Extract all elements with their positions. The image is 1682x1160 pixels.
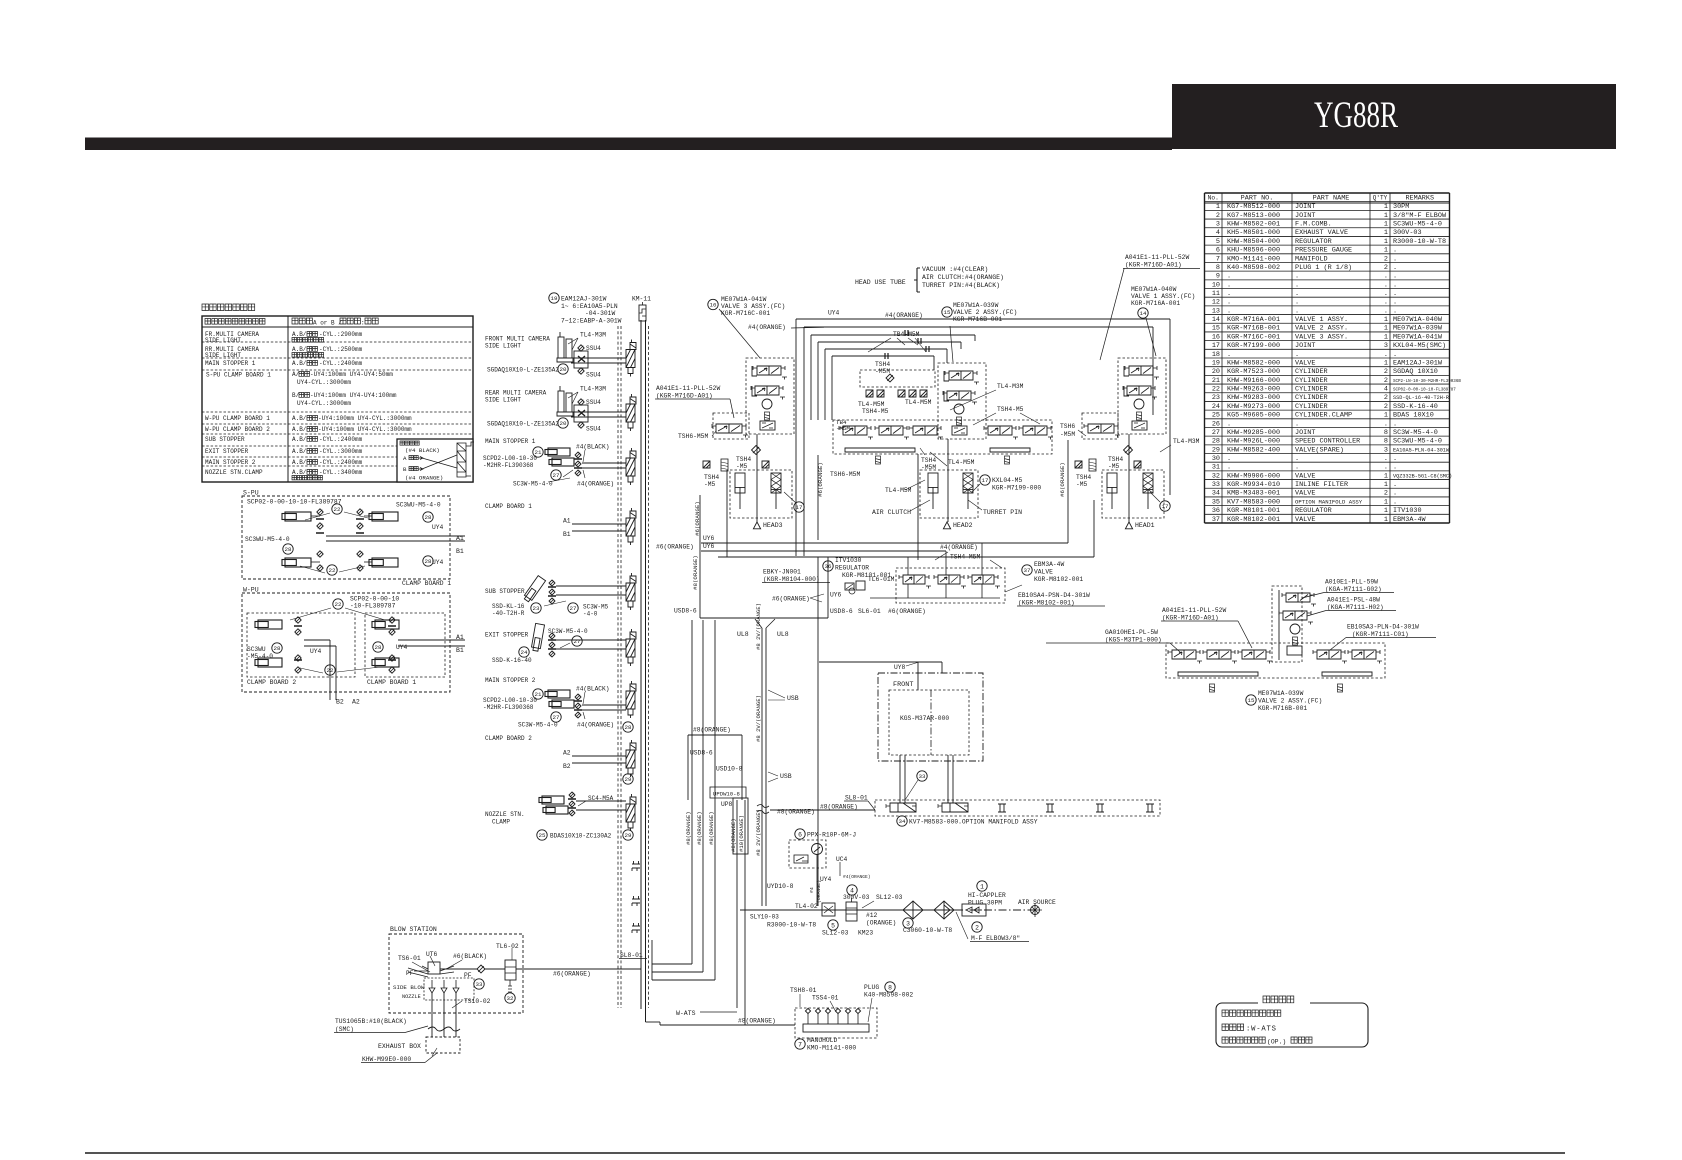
svg-text:A1: A1 — [456, 535, 464, 542]
svg-text:KV7-M8583-000: KV7-M8583-000 — [1227, 498, 1280, 506]
svg-text:27: 27 — [553, 472, 560, 479]
svg-text:3: 3 — [1384, 342, 1388, 350]
W-PU clamp board 1 inner box — [365, 613, 445, 677]
svg-text:16: 16 — [1212, 333, 1220, 341]
hose table port note box — [397, 439, 473, 482]
svg-text:OPTION MANIFOLD ASSY: OPTION MANIFOLD ASSY — [1295, 498, 1363, 505]
svg-text:7: 7 — [1216, 255, 1220, 263]
svg-text:A041E1-11-PLL-52W: A041E1-11-PLL-52W — [1125, 254, 1189, 261]
svg-text:HEAD1: HEAD1 — [1135, 522, 1155, 529]
svg-text:-CYL.:3000mm: -CYL.:3000mm — [319, 448, 363, 455]
svg-text:B/: B/ — [292, 392, 300, 399]
svg-text:VALVE 2 ASSY.(FC): VALVE 2 ASSY.(FC) — [1258, 698, 1322, 705]
svg-text:AIR CLUTCH: AIR CLUTCH — [872, 509, 911, 516]
svg-text:.: . — [1227, 351, 1231, 359]
squiggle tus — [428, 1027, 460, 1031]
bus valve 4 — [630, 508, 636, 518]
wires sub stopper — [556, 585, 626, 587]
svg-text:29: 29 — [625, 832, 632, 839]
svg-text:TSH6-M5M: TSH6-M5M — [678, 433, 708, 440]
joints main stopper 1 — [575, 452, 581, 458]
svg-text:ME07W1A-039W: ME07W1A-039W — [1258, 690, 1304, 697]
cylinders W-PU CB1 — [375, 620, 399, 629]
svg-text:CLAMP BOARD 1: CLAMP BOARD 1 — [485, 503, 532, 510]
svg-text:CLAMP: CLAMP — [492, 819, 510, 826]
svg-text:UY6: UY6 — [830, 592, 842, 599]
wire head3 riser — [756, 434, 758, 522]
W-PU wires — [304, 639, 330, 641]
svg-text:R3000-10-W-T8: R3000-10-W-T8 — [767, 922, 816, 929]
svg-text:TL6-02: TL6-02 — [496, 943, 519, 950]
valve box EBM3A — [896, 568, 1005, 603]
svg-text:6: 6 — [798, 831, 802, 838]
svg-text:KV7-M8583-000.OPTION MANIFOLD: KV7-M8583-000.OPTION MANIFOLD ASSY — [909, 819, 1038, 826]
svg-text:UPDW10-8: UPDW10-8 — [713, 791, 740, 798]
svg-text:.: . — [1227, 420, 1231, 428]
svg-text:A041E1-11-PLL-52W: A041E1-11-PLL-52W — [656, 385, 720, 392]
svg-text:HEAD USE TUBE: HEAD USE TUBE — [855, 279, 906, 286]
svg-text:#8(ORANGE): #8(ORANGE) — [692, 555, 699, 590]
valve assy stack HEAD3 — [746, 358, 794, 434]
label 15 valve2 bottom — [1246, 695, 1256, 705]
svg-text:#12: #12 — [866, 912, 878, 919]
svg-text:(ORANGE): (ORANGE) — [816, 880, 822, 903]
joints W-PU CB2 — [295, 617, 301, 623]
blow main line — [440, 968, 477, 970]
svg-text:.: . — [1393, 464, 1397, 472]
W-PU clamp board 2 inner box — [247, 613, 355, 677]
svg-text:#6(ORANGE): #6(ORANGE) — [656, 544, 694, 551]
svg-text:22: 22 — [329, 567, 336, 574]
svg-text:TL4-M5M: TL4-M5M — [905, 399, 932, 406]
svg-text:1: 1 — [1384, 472, 1388, 480]
svg-text:SSU4: SSU4 — [586, 426, 601, 433]
svg-text:1: 1 — [1384, 498, 1388, 506]
svg-text:ITV1030: ITV1030 — [835, 557, 862, 564]
blow check diamond — [477, 965, 485, 973]
hi-cappler — [962, 904, 986, 916]
svg-text:UY8: UY8 — [894, 664, 906, 671]
exhaust head2 — [943, 522, 950, 529]
svg-text:EBM3A-4W: EBM3A-4W — [1034, 561, 1064, 568]
svg-text:UY4-CYL.:3000mm: UY4-CYL.:3000mm — [297, 400, 351, 407]
wire nest 3 — [811, 334, 975, 336]
svg-text::: : — [361, 320, 365, 327]
svg-text:KGR-M716C-001: KGR-M716C-001 — [1227, 333, 1280, 341]
svg-text:33: 33 — [919, 773, 926, 780]
svg-text:NOZZLE: NOZZLE — [402, 994, 421, 1000]
TL4-M5M squares row — [866, 390, 873, 397]
svg-text:(ORANGE): (ORANGE) — [866, 920, 896, 927]
svg-text:.: . — [1295, 351, 1299, 359]
svg-text:SCP2-LN-10-30-M2HR-FL39036B: SCP2-LN-10-30-M2HR-FL39036B — [1393, 380, 1461, 384]
svg-text:#4(ORANGE): #4(ORANGE) — [940, 544, 978, 551]
svg-text:16: 16 — [710, 302, 717, 309]
svg-text:KHW-M8504-000: KHW-M8504-000 — [1227, 238, 1280, 246]
svg-text:11: 11 — [1212, 290, 1220, 298]
svg-text:8: 8 — [1384, 429, 1388, 437]
joints W-PU CB1 — [389, 617, 395, 623]
label 16 valve3 assy — [708, 299, 718, 309]
cylinder head1 clutch — [1143, 473, 1153, 493]
svg-text:PLUG: PLUG — [864, 984, 879, 991]
svg-text:-M5M: -M5M — [1060, 431, 1075, 438]
svg-text:CLAMP BOARD 1: CLAMP BOARD 1 — [367, 679, 416, 686]
svg-text:SC3WU-M5-4-0: SC3WU-M5-4-0 — [1393, 221, 1442, 229]
svg-text:.: . — [1295, 290, 1299, 298]
svg-text:USB: USB — [787, 695, 799, 702]
label 6 PPX — [795, 829, 805, 839]
svg-text:UY4-CYL.:3000mm: UY4-CYL.:3000mm — [297, 379, 351, 386]
svg-text:30: 30 — [1212, 455, 1220, 463]
svg-text:TSH4: TSH4 — [1108, 456, 1123, 463]
svg-text:(KGR-M716D-A01): (KGR-M716D-A01) — [1125, 262, 1182, 269]
svg-text:#6(ORANGE): #6(ORANGE) — [772, 596, 810, 603]
svg-text:TL6-01M: TL6-01M — [868, 576, 895, 583]
svg-text:SC3W-M5-4-0: SC3W-M5-4-0 — [513, 481, 553, 488]
cylinder head1 vacuum — [1107, 473, 1117, 493]
valve TSH6-M5M head1 — [1082, 413, 1118, 439]
svg-text:.: . — [1393, 420, 1397, 428]
right assy valve row box — [1166, 643, 1385, 678]
svg-text:19: 19 — [551, 295, 558, 302]
svg-text:CYLINDER: CYLINDER — [1295, 377, 1328, 385]
svg-text:#4(ORANGE): #4(ORANGE) — [748, 324, 786, 331]
svg-text:TSH4-M5: TSH4-M5 — [997, 406, 1024, 413]
S-PU wires — [311, 515, 320, 517]
wire nest 2 — [804, 326, 1153, 328]
svg-text:A.B/: A.B/ — [292, 426, 307, 433]
hose table header — [205, 319, 265, 325]
svg-text:23: 23 — [533, 605, 540, 612]
bus spare station 2 — [632, 896, 640, 906]
svg-text:(#4 BLACK): (#4 BLACK) — [405, 447, 440, 454]
label 22 circled lower — [327, 565, 337, 575]
svg-text:UY6: UY6 — [703, 535, 715, 542]
svg-text:-M2HR-FL390368: -M2HR-FL390368 — [483, 704, 534, 711]
svg-text:A: A — [403, 455, 407, 462]
svg-text:TSS4-01: TSS4-01 — [812, 995, 839, 1002]
cylinder main stopper 1 — [548, 448, 570, 456]
blow exhaust drops — [431, 993, 433, 1037]
svg-text:28: 28 — [375, 644, 382, 651]
svg-text:A.B/: A.B/ — [292, 360, 307, 367]
svg-text:14: 14 — [1140, 310, 1147, 317]
svg-text:#6(ORANGE): #6(ORANGE) — [1059, 462, 1066, 497]
svg-text:KM23: KM23 — [858, 930, 873, 937]
svg-text:EXIT STOPPER: EXIT STOPPER — [485, 632, 529, 639]
svg-text:REGULATOR: REGULATOR — [1295, 238, 1332, 246]
svg-text:KGR-M7199-000: KGR-M7199-000 — [992, 485, 1041, 492]
svg-text:A2: A2 — [352, 699, 360, 706]
cylinder head2 turret pin — [963, 473, 973, 493]
svg-text:CLAMP BOARD 2: CLAMP BOARD 2 — [247, 679, 296, 686]
svg-text:17: 17 — [1212, 342, 1220, 350]
parts table — [1205, 192, 1450, 194]
hose spec table — [202, 316, 473, 482]
valve row manifold bars — [845, 448, 1030, 452]
bottom rule — [85, 1152, 1565, 1154]
svg-text:SCPD2-L00-10-30: SCPD2-L00-10-30 — [483, 455, 537, 462]
TSH4-M5M filter box — [860, 370, 935, 387]
svg-text:12: 12 — [1212, 299, 1220, 307]
svg-text:KXL04-M5(SMC): KXL04-M5(SMC) — [1393, 342, 1446, 350]
svg-text:36: 36 — [825, 563, 832, 570]
svg-text:MANUHOLD: MANUHOLD — [807, 1037, 837, 1044]
svg-text:ME07W1A-041W: ME07W1A-041W — [721, 296, 767, 303]
svg-text:1~ 6:EA10A5-PLN: 1~ 6:EA10A5-PLN — [561, 303, 618, 310]
cylinder head3 vacuum — [735, 473, 745, 493]
svg-text:-CYL.:3400mm: -CYL.:3400mm — [319, 469, 363, 476]
svg-text:UC4: UC4 — [836, 856, 848, 863]
svg-text:A or B /: A or B / — [313, 320, 342, 327]
svg-text:EB10SA4-PSN-D4-301W: EB10SA4-PSN-D4-301W — [1018, 592, 1090, 599]
svg-text:KGR-M8102-001: KGR-M8102-001 — [1034, 576, 1083, 583]
valve row TL4 — [843, 426, 867, 435]
svg-text:(#4 ORANGE): (#4 ORANGE) — [405, 475, 443, 482]
svg-text:VQZ332B-5G1-C8(SMC): VQZ332B-5G1-C8(SMC) — [1393, 473, 1452, 479]
svg-text:TL4-M3M: TL4-M3M — [1173, 438, 1200, 445]
svg-text:UY4: UY4 — [828, 310, 840, 317]
label KXL04 — [980, 475, 990, 485]
bus spare station 1 — [632, 861, 640, 871]
svg-text:TSH4: TSH4 — [921, 457, 936, 464]
svg-text:#8(ORANGE): #8(ORANGE) — [708, 811, 715, 845]
svg-text:SSD-K-16-40: SSD-K-16-40 — [492, 657, 532, 664]
cylinder box HEAD2 — [920, 470, 978, 518]
svg-text:.: . — [1227, 307, 1231, 315]
svg-text:KM-11: KM-11 — [632, 296, 651, 303]
filter head3 — [752, 446, 761, 455]
svg-text:SSU4: SSU4 — [586, 372, 601, 379]
svg-text:22: 22 — [327, 667, 334, 674]
svg-text:VALVE 2 ASSY.(FC): VALVE 2 ASSY.(FC) — [953, 309, 1017, 316]
svg-text:21: 21 — [1212, 377, 1220, 385]
svg-text:SCP02-0-00-10-10-FL389787: SCP02-0-00-10-10-FL389787 — [247, 499, 342, 506]
svg-text:28: 28 — [625, 724, 632, 731]
wires rear camera — [571, 411, 626, 413]
svg-text:#6(ORANGE): #6(ORANGE) — [553, 971, 591, 978]
svg-text:(KGR-M716D-A01): (KGR-M716D-A01) — [656, 393, 713, 400]
svg-text:A1: A1 — [563, 518, 571, 525]
svg-text:FRONT: FRONT — [893, 681, 913, 689]
svg-text:-CYL.:2400mm: -CYL.:2400mm — [319, 459, 363, 466]
svg-text:23: 23 — [1212, 394, 1220, 402]
svg-text:-10-FL389787: -10-FL389787 — [350, 603, 396, 610]
svg-text:UL8: UL8 — [777, 631, 789, 638]
cylinders W-PU CB2 — [258, 620, 282, 629]
regulator ITV1030 cluster — [823, 561, 833, 571]
svg-text:(KGA-M7111-H02): (KGA-M7111-H02) — [1327, 604, 1384, 611]
svg-text::W-ATS: :W-ATS — [1246, 1026, 1277, 1034]
filter diamond 2 — [934, 901, 954, 919]
svg-text:SL12-03: SL12-03 — [876, 894, 903, 901]
wires exit stopper — [556, 639, 626, 641]
svg-text:GA010HE1-PL-5W: GA010HE1-PL-5W — [1105, 629, 1158, 636]
svg-text:FRONT MULTI CAMERA: FRONT MULTI CAMERA — [485, 336, 550, 343]
svg-text:KHW-M99E0-000: KHW-M99E0-000 — [362, 1056, 411, 1063]
svg-text:TL4-M3M: TL4-M3M — [580, 386, 606, 393]
svg-text:#4: #4 — [809, 887, 815, 893]
wires front camera — [571, 357, 626, 359]
svg-text:-M5: -M5 — [1076, 481, 1088, 488]
svg-text:32: 32 — [507, 995, 514, 1002]
svg-text:(KGS-M3TP1-000): (KGS-M3TP1-000) — [1105, 637, 1162, 644]
svg-text:28: 28 — [274, 645, 281, 652]
bus valve 1 — [630, 340, 636, 350]
wires head2 — [947, 439, 949, 522]
svg-text:KGR-M716A-001: KGR-M716A-001 — [1131, 300, 1180, 307]
valve bus dashed rails — [617, 326, 619, 1008]
svg-text:SIDE BLOW: SIDE BLOW — [393, 984, 425, 991]
svg-text:ME07W1A-040W: ME07W1A-040W — [1131, 286, 1177, 293]
svg-text:#8 2V/(ORANGE): #8 2V/(ORANGE) — [755, 603, 762, 650]
svg-text:28: 28 — [285, 546, 292, 553]
svg-text:3: 3 — [1216, 221, 1220, 229]
svg-text:K40-M8598-002: K40-M8598-002 — [864, 992, 913, 999]
svg-text:F.M.COMB.: F.M.COMB. — [1295, 221, 1332, 229]
svg-text:300V-03: 300V-03 — [843, 894, 870, 901]
svg-text:.: . — [1384, 351, 1388, 359]
svg-text:-CYL.:2400mm: -CYL.:2400mm — [319, 436, 363, 443]
svg-text:NOZZLE STN.: NOZZLE STN. — [485, 811, 525, 818]
svg-text:-M5: -M5 — [1108, 463, 1120, 470]
svg-text:UY6: UY6 — [703, 543, 715, 550]
wires nozzle clamp — [576, 800, 626, 802]
svg-text:UY4: UY4 — [396, 644, 408, 651]
svg-text:1: 1 — [1384, 238, 1388, 246]
manifold spare T stations — [998, 804, 1006, 812]
svg-text:.: . — [1384, 464, 1388, 472]
svg-text:K40-M8598-002: K40-M8598-002 — [1227, 264, 1280, 272]
svg-text:SL6-01: SL6-01 — [858, 608, 881, 615]
svg-text:35: 35 — [1212, 498, 1220, 506]
valve assy stack HEAD2 — [938, 363, 986, 439]
svg-text:SCP02-0-00-10: SCP02-0-00-10 — [350, 596, 399, 603]
svg-text:.: . — [1384, 420, 1388, 428]
svg-text:A.B/: A.B/ — [292, 448, 307, 455]
wires front to manifold — [899, 755, 901, 803]
joints main stopper 2 — [575, 694, 581, 700]
wires main stopper 2 — [582, 704, 626, 706]
svg-text:A041E1-11-PLL-52W: A041E1-11-PLL-52W — [1162, 607, 1226, 614]
joint SSU4 rear a — [574, 405, 588, 422]
svg-text:A1: A1 — [456, 634, 464, 641]
svg-text:-M5M: -M5M — [836, 425, 850, 432]
svg-text:SIDE LIGHT: SIDE LIGHT — [485, 343, 521, 350]
svg-text:-UY4:100mm UY4-UY4:50mm: -UY4:100mm UY4-UY4:50mm — [310, 371, 393, 378]
svg-text:R3000-10-W-T8: R3000-10-W-T8 — [1393, 238, 1446, 246]
svg-text:(KGR-M8104-000): (KGR-M8104-000) — [763, 576, 820, 583]
svg-text:USD10-8: USD10-8 — [716, 766, 743, 773]
svg-text:W-PU CLAMP BOARD 1: W-PU CLAMP BOARD 1 — [205, 415, 270, 422]
svg-text:REAR MULTI CAMERA: REAR MULTI CAMERA — [485, 390, 547, 397]
bus valve 8 — [630, 740, 636, 750]
svg-text:HI-CAPPLER: HI-CAPPLER — [968, 892, 1006, 899]
svg-text:KHW-M9283-000: KHW-M9283-000 — [1227, 394, 1280, 402]
svg-text:A041E1-PSL-48W: A041E1-PSL-48W — [1327, 597, 1380, 604]
svg-text:HEAD3: HEAD3 — [763, 522, 783, 529]
svg-text:A.B/: A.B/ — [292, 346, 307, 353]
svg-text:EB10SA3-PLN-D4-301W: EB10SA3-PLN-D4-301W — [1347, 624, 1419, 631]
svg-text:MAIN STOPPER 2: MAIN STOPPER 2 — [205, 459, 256, 466]
svg-text:#4(ORANGE): #4(ORANGE) — [577, 722, 614, 729]
svg-text:#8(ORANGE): #8(ORANGE) — [738, 1018, 776, 1025]
svg-text:KGS-M37AR-000: KGS-M37AR-000 — [900, 715, 949, 722]
svg-text:#8 2V/(ORANGE): #8 2V/(ORANGE) — [755, 695, 762, 742]
svg-text:.: . — [1227, 464, 1231, 472]
svg-text:18: 18 — [1212, 351, 1220, 359]
svg-text:#6(ORANGE): #6(ORANGE) — [888, 608, 926, 615]
label 22 circled W-PU — [333, 599, 343, 609]
svg-text:A2: A2 — [563, 750, 571, 757]
riser bundle down-left — [691, 620, 693, 964]
svg-text:.: . — [1295, 420, 1299, 428]
svg-text:TL4-M5M: TL4-M5M — [885, 487, 912, 494]
svg-text:(OP.): (OP.) — [1267, 1039, 1286, 1046]
svg-text:UT6: UT6 — [426, 951, 438, 958]
svg-text:SL8-01: SL8-01 — [845, 795, 868, 802]
svg-text:A.B/: A.B/ — [292, 459, 307, 466]
svg-text:SUB STOPPER: SUB STOPPER — [485, 588, 525, 595]
svg-text:KXL04-M5: KXL04-M5 — [992, 477, 1022, 484]
svg-text:#8(ORANGE): #8(ORANGE) — [696, 811, 703, 845]
svg-text:USD8-6: USD8-6 — [674, 608, 697, 615]
svg-text:.: . — [1227, 290, 1231, 298]
svg-text:YG88R: YG88R — [1314, 95, 1398, 136]
svg-text:TURRET PIN: TURRET PIN — [983, 509, 1022, 516]
svg-text:AIR SOURCE: AIR SOURCE — [1018, 899, 1056, 906]
svg-text:7: 7 — [798, 1041, 802, 1048]
svg-text:A.B/: A.B/ — [292, 415, 307, 422]
squiggle break — [757, 805, 769, 814]
svg-text:PLUG 1 (R 1/8): PLUG 1 (R 1/8) — [1295, 264, 1352, 272]
svg-text:-CYL.:2400mm: -CYL.:2400mm — [319, 360, 363, 367]
svg-text:#4(BLACK): #4(BLACK) — [576, 444, 609, 451]
svg-text:M-F ELBOW3/8″: M-F ELBOW3/8″ — [971, 935, 1020, 942]
svg-text:BDAS10X10-ZC130A2: BDAS10X10-ZC130A2 — [550, 833, 612, 840]
svg-text:ME07W1A-041W: ME07W1A-041W — [1393, 333, 1443, 341]
svg-text:TSH4: TSH4 — [1076, 474, 1091, 481]
svg-text:#10(ORANGE): #10(ORANGE) — [738, 815, 745, 852]
svg-text:-M5: -M5 — [704, 481, 716, 488]
svg-text:UY4: UY4 — [432, 524, 444, 531]
svg-text:TS6-01: TS6-01 — [398, 955, 421, 962]
svg-text:#8(ORANGE): #8(ORANGE) — [730, 818, 737, 852]
cylinder head2 air clutch — [928, 473, 938, 493]
svg-text:SUB STOPPER: SUB STOPPER — [205, 436, 245, 443]
svg-text:SC3WU-M5-4-0: SC3WU-M5-4-0 — [245, 536, 290, 543]
label 22 circled upper — [332, 504, 342, 514]
svg-text:S-PU: S-PU — [243, 490, 259, 497]
svg-text:VALVE 1 ASSY.(FC): VALVE 1 ASSY.(FC) — [1131, 293, 1195, 300]
svg-text:CYLINDER: CYLINDER — [1295, 386, 1328, 394]
svg-text:TURRET PIN:#4(BLACK): TURRET PIN:#4(BLACK) — [922, 282, 1000, 289]
svg-text:W-PU CLAMP BOARD 2: W-PU CLAMP BOARD 2 — [205, 426, 270, 433]
svg-text:13: 13 — [1212, 307, 1220, 315]
svg-text:#4(BLACK): #4(BLACK) — [576, 686, 609, 693]
svg-text:(KGR-M716D-A01): (KGR-M716D-A01) — [1162, 615, 1219, 622]
cylinder 22 S-PU upper-left — [285, 512, 311, 521]
svg-text:SIDE LIGHT: SIDE LIGHT — [205, 337, 241, 344]
exhaust valve 300V-03 — [847, 885, 857, 895]
svg-text:JOINT: JOINT — [1295, 342, 1315, 350]
joint cluster S-PU right — [357, 509, 363, 515]
svg-text:#6(BLACK): #6(BLACK) — [453, 953, 487, 960]
svg-text:KMO-M1141-000: KMO-M1141-000 — [807, 1045, 856, 1052]
svg-text:17: 17 — [982, 477, 989, 484]
svg-text:SC3W-M5: SC3W-M5 — [583, 604, 609, 611]
